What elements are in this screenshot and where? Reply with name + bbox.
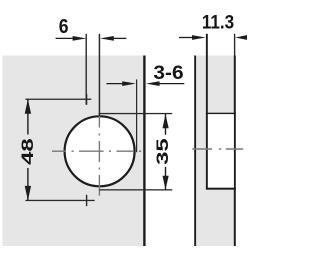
extension line above cabinet right border — [234, 34, 235, 56]
dim 6 right arrow — [100, 36, 126, 41]
extension line (cup edge) for dim 3-6 — [136, 79, 137, 152]
svg-text:35: 35 — [153, 138, 171, 165]
cabinet panel left border — [194, 56, 196, 247]
dim 6 left arrow — [56, 36, 87, 41]
extension line (cup axis) for dim 6 — [99, 34, 101, 116]
centerline on cabinet panel — [192, 148, 243, 150]
door edge line — [143, 56, 145, 247]
screw hole cross top — [86, 94, 87, 105]
door panel — [2, 56, 143, 247]
cabinet panel right border — [234, 56, 236, 247]
dim 11.3 right arrow — [235, 35, 247, 40]
dim 35 top extension line — [99, 113, 173, 114]
dim 3-6 left arrow — [106, 81, 135, 86]
svg-text:11.3: 11.3 — [202, 12, 234, 33]
dim 35 line with arrows — [163, 114, 169, 190]
dim 11.3 left arrow — [179, 35, 206, 40]
extension line left (screw axis) for dim 6 — [86, 34, 87, 105]
vertical centerline of cup — [98, 116, 100, 196]
mounting plate recess (white) — [208, 114, 234, 188]
dim 35 bottom extension line — [100, 189, 173, 190]
cup hole circle (dia 35) — [65, 116, 135, 186]
horizontal centerline of cup — [52, 150, 141, 152]
dim 48 top extension line — [25, 99, 91, 100]
cabinet side panel — [196, 56, 234, 247]
svg-text:48: 48 — [19, 138, 37, 165]
svg-text:6: 6 — [59, 15, 69, 37]
recess top border — [206, 113, 236, 114]
recess bottom border — [206, 188, 236, 190]
screw hole cross bottom — [86, 195, 87, 206]
mounting plate front line / extension line for 11.3 — [206, 34, 208, 189]
dim 3-6 right arrow — [146, 81, 184, 86]
dim 48 line with arrows — [25, 99, 31, 200]
dim 48 bottom extension line — [25, 200, 94, 201]
svg-text:3-6: 3-6 — [153, 63, 183, 84]
